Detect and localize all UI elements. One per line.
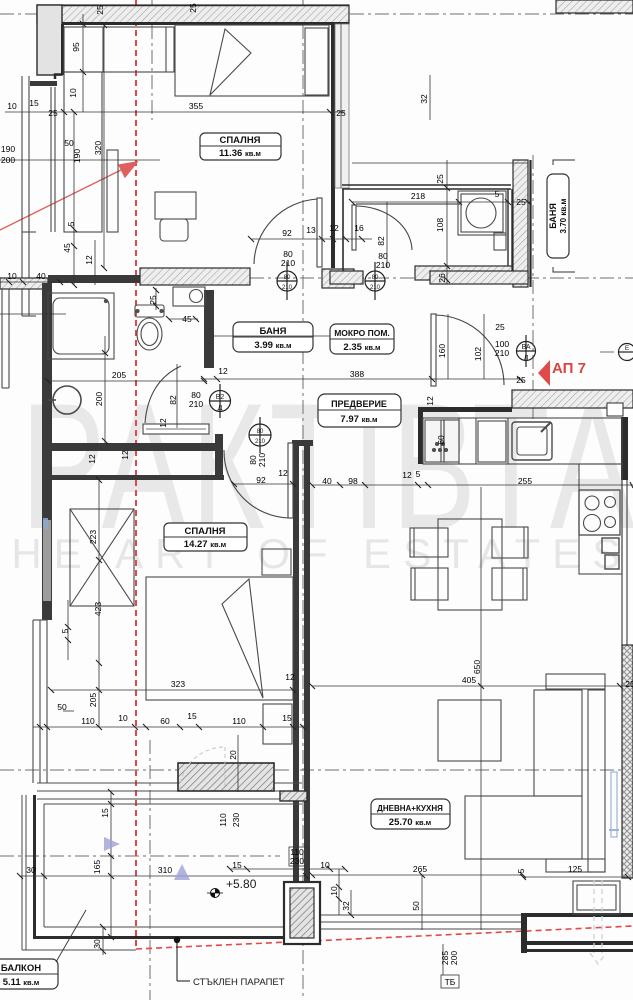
watermark xyxy=(0,365,633,577)
svg-text:32: 32 xyxy=(419,94,429,104)
svg-text:230: 230 xyxy=(231,813,241,827)
red reference dashed lines xyxy=(136,0,633,950)
svg-text:210: 210 xyxy=(257,453,267,467)
bedroom2 balcony window band xyxy=(37,783,302,799)
svg-text:12: 12 xyxy=(158,418,168,428)
svg-text:320: 320 xyxy=(93,141,103,155)
entry door symbol xyxy=(517,342,536,361)
kitchen right column counter xyxy=(579,464,622,574)
red arrow xyxy=(0,162,137,230)
svg-text:15: 15 xyxy=(100,808,110,818)
svg-text:30: 30 xyxy=(92,939,102,949)
coffee table xyxy=(438,700,501,761)
svg-text:650: 650 xyxy=(472,660,482,674)
shaft strip right of bedroom1 xyxy=(335,24,349,188)
svg-text:32: 32 xyxy=(341,901,351,911)
corner stub right of bath door xyxy=(204,443,216,451)
svg-text:218: 218 xyxy=(411,191,425,201)
right top bath wall (hatched vertical) xyxy=(513,160,528,287)
balcony outline xyxy=(33,795,36,938)
svg-text:10: 10 xyxy=(68,88,78,98)
svg-text:210: 210 xyxy=(255,439,266,445)
svg-text:5: 5 xyxy=(60,628,70,633)
svg-text:80: 80 xyxy=(284,275,291,281)
bedroom1 door xyxy=(317,198,322,267)
left edge wall below (off canvas stub) xyxy=(2,289,9,388)
entry door xyxy=(431,314,436,386)
svg-text:50: 50 xyxy=(64,138,74,148)
svg-text:50: 50 xyxy=(411,901,421,911)
predverie xyxy=(204,378,520,380)
svg-text:12: 12 xyxy=(425,396,435,406)
top bedroom1 xyxy=(64,111,345,113)
svg-text:5: 5 xyxy=(416,469,421,479)
bottom wall of top right bath xyxy=(430,271,528,284)
svg-text:15: 15 xyxy=(282,713,292,723)
svg-text:5.11 кв.м: 5.11 кв.м xyxy=(3,977,40,988)
svg-text:92: 92 xyxy=(256,475,266,485)
shower xyxy=(48,293,114,359)
svg-text:210: 210 xyxy=(189,399,203,409)
mokro door symbol xyxy=(365,271,385,291)
kitchen sink xyxy=(512,422,552,460)
svg-text:110: 110 xyxy=(81,716,95,726)
svg-text:30: 30 xyxy=(26,865,36,875)
svg-text:10: 10 xyxy=(7,271,17,281)
svg-text:40: 40 xyxy=(36,271,46,281)
svg-text:45: 45 xyxy=(62,243,72,253)
svg-text:СПАЛНЯ: СПАЛНЯ xyxy=(184,526,225,537)
svg-text:210: 210 xyxy=(282,285,293,291)
bedroom2 wardrobe X xyxy=(70,509,134,606)
svg-text:210: 210 xyxy=(495,348,509,358)
svg-text:102: 102 xyxy=(473,347,483,361)
bath door leaf + arc xyxy=(143,424,209,434)
svg-text:210: 210 xyxy=(370,285,381,291)
svg-text:200: 200 xyxy=(1,155,15,165)
washing machine xyxy=(458,191,506,235)
svg-text:12: 12 xyxy=(329,223,339,233)
svg-text:5: 5 xyxy=(495,189,500,199)
entry wall right of door xyxy=(512,390,633,408)
mokro bottom wall hatched xyxy=(415,266,512,280)
svg-text:50: 50 xyxy=(57,702,67,712)
bottom right terrace walls xyxy=(521,913,633,917)
svg-text:2.35 кв.м: 2.35 кв.м xyxy=(343,342,381,353)
svg-text:12: 12 xyxy=(278,468,288,478)
svg-text:11.36 кв.м: 11.36 кв.м xyxy=(219,148,261,159)
svg-text:5: 5 xyxy=(66,221,76,226)
bedroom1 bottom wall: left thin part xyxy=(48,275,140,283)
svg-text:423: 423 xyxy=(93,602,103,616)
svg-text:223: 223 xyxy=(88,530,98,544)
window column bottom xyxy=(284,882,320,944)
svg-text:В2: В2 xyxy=(216,394,225,401)
svg-text:25: 25 xyxy=(148,295,158,305)
svg-text:25: 25 xyxy=(516,375,526,385)
round sink xyxy=(53,386,81,414)
living balcony window band xyxy=(312,915,523,929)
svg-text:12: 12 xyxy=(120,450,130,460)
svg-text:12: 12 xyxy=(402,470,412,480)
bedroom2 top wall xyxy=(52,475,224,480)
nightstands xyxy=(262,549,291,575)
ghost dashed outline bottom right xyxy=(590,880,606,964)
svg-text:210: 210 xyxy=(281,258,295,268)
svg-text:205: 205 xyxy=(88,693,98,707)
svg-text:355: 355 xyxy=(189,101,203,111)
bath xyxy=(155,288,157,310)
svg-text:БАЛКОН: БАЛКОН xyxy=(1,963,41,974)
svg-text:25: 25 xyxy=(48,108,58,118)
faint balcony door swing xyxy=(180,747,225,790)
sofa xyxy=(546,674,605,689)
bath door symbol xyxy=(210,391,231,412)
svg-text:45: 45 xyxy=(182,314,192,324)
stove xyxy=(579,490,620,535)
mokro room top wall xyxy=(342,184,511,186)
svg-text:98: 98 xyxy=(348,476,358,486)
kitchen dim xyxy=(312,484,633,486)
svg-text:МОКРО ПОМ.: МОКРО ПОМ. xyxy=(334,328,390,338)
svg-text:ВА: ВА xyxy=(521,344,530,351)
svg-text:388: 388 xyxy=(350,369,364,379)
svg-text:230: 230 xyxy=(290,856,304,866)
svg-text:95: 95 xyxy=(71,42,81,52)
left wall column top xyxy=(37,5,62,75)
bedroom2 right wall xyxy=(292,440,313,446)
toilet xyxy=(135,305,164,317)
left window bedroom1 xyxy=(22,76,55,316)
svg-text:АП 7: АП 7 xyxy=(552,360,586,377)
top wall band xyxy=(37,5,349,24)
living xyxy=(480,487,482,930)
svg-text:82: 82 xyxy=(168,395,178,405)
bedroom1 bottom wall right piece xyxy=(322,269,354,288)
svg-text:165: 165 xyxy=(92,860,102,874)
svg-text:25: 25 xyxy=(188,3,198,13)
mokro right wall xyxy=(507,189,509,266)
svg-text:80: 80 xyxy=(257,429,264,435)
svg-text:200: 200 xyxy=(449,951,459,965)
БАЛКОН leader line xyxy=(56,910,86,962)
svg-text:3.70 кв.м: 3.70 кв.м xyxy=(559,198,568,233)
side table below sofa xyxy=(573,881,620,914)
bath left wall xyxy=(42,283,52,451)
right側 xyxy=(429,75,431,120)
svg-text:125: 125 xyxy=(568,864,582,874)
bedroom1 closet left xyxy=(64,72,102,232)
svg-text:+5.80: +5.80 xyxy=(226,877,257,891)
svg-text:15: 15 xyxy=(187,711,197,721)
glass door marker right wall xyxy=(611,772,617,837)
bedroom2 door dim xyxy=(234,483,296,485)
desk + chair bedroom1 xyxy=(155,192,196,219)
door code circle symbols xyxy=(210,262,633,453)
bedroom2 xyxy=(98,480,100,727)
svg-text:Л: Л xyxy=(524,355,529,362)
svg-text:310: 310 xyxy=(158,865,172,875)
svg-text:82: 82 xyxy=(376,236,386,246)
hatched pier on window xyxy=(178,763,274,791)
svg-text:60: 60 xyxy=(436,435,446,445)
svg-text:БАНЯ: БАНЯ xyxy=(548,203,558,229)
top left cluster xyxy=(5,111,64,113)
svg-text:92: 92 xyxy=(282,228,292,238)
svg-text:25: 25 xyxy=(435,174,445,184)
svg-text:110: 110 xyxy=(232,716,246,726)
svg-text:190: 190 xyxy=(1,144,15,154)
bedroom2 left wall xyxy=(42,451,52,620)
bedroom1 door symbol xyxy=(277,271,297,291)
bedroom1 closet top xyxy=(64,27,174,72)
svg-text:Е: Е xyxy=(625,345,630,352)
svg-text:3.99 кв.м: 3.99 кв.м xyxy=(254,340,292,351)
svg-text:25.70 кв.м: 25.70 кв.м xyxy=(389,817,432,828)
small blue window marker bedroom2 xyxy=(43,518,48,529)
bedroom1 right wall xyxy=(331,24,335,268)
bed1 xyxy=(175,25,329,96)
svg-text:26: 26 xyxy=(437,273,447,283)
bath bottom wall xyxy=(42,443,216,451)
svg-text:12: 12 xyxy=(87,454,97,464)
svg-text:25: 25 xyxy=(336,108,346,118)
balcony xyxy=(110,792,112,937)
bedroom2 door symbol xyxy=(249,424,271,446)
left wall piece at left edge y278 xyxy=(0,278,48,289)
svg-text:16: 16 xyxy=(354,223,364,233)
svg-text:190: 190 xyxy=(72,149,82,163)
svg-text:80: 80 xyxy=(372,275,379,281)
bedroom1 door dims xyxy=(251,238,372,240)
svg-text:25: 25 xyxy=(95,5,105,15)
svg-text:108: 108 xyxy=(435,218,445,232)
svg-text:СТЪКЛЕН ПАРАПЕТ: СТЪКЛЕН ПАРАПЕТ xyxy=(193,977,285,988)
svg-text:ПРЕДВЕРИЕ: ПРЕДВЕРИЕ xyxy=(331,399,387,409)
svg-text:15: 15 xyxy=(29,98,39,108)
svg-text:10: 10 xyxy=(320,860,330,870)
svg-text:210: 210 xyxy=(376,260,390,270)
svg-text:10: 10 xyxy=(329,886,339,896)
kitchen top wall line xyxy=(418,407,512,412)
svg-text:7.97 кв.м: 7.97 кв.м xyxy=(340,414,378,425)
top right corner band xyxy=(556,0,633,13)
svg-text:25: 25 xyxy=(625,679,633,689)
kitchen counter row xyxy=(423,418,622,464)
bedroom2 left window xyxy=(43,520,51,601)
svg-text:323: 323 xyxy=(171,679,185,689)
dining table xyxy=(438,519,502,610)
svg-text:12: 12 xyxy=(285,672,295,682)
svg-text:10: 10 xyxy=(118,713,128,723)
svg-text:255: 255 xyxy=(518,476,532,486)
right edge symbol xyxy=(619,344,633,361)
svg-text:Д: Д xyxy=(218,405,223,412)
svg-text:ТБ: ТБ xyxy=(445,977,456,987)
svg-text:25: 25 xyxy=(495,322,505,332)
burner dots xyxy=(433,443,448,452)
svg-text:ДНЕВНА+КУХНЯ: ДНЕВНА+КУХНЯ xyxy=(377,804,443,813)
svg-text:5: 5 xyxy=(516,868,526,873)
svg-text:160: 160 xyxy=(437,344,447,358)
svg-text:14.27 кв.м: 14.27 кв.м xyxy=(184,539,227,550)
right wall of living xyxy=(621,417,628,480)
svg-text:12: 12 xyxy=(218,366,228,376)
oven boxes xyxy=(602,538,619,553)
bed2 xyxy=(146,577,293,700)
svg-text:110: 110 xyxy=(218,813,228,827)
bath right wall (inner) xyxy=(204,290,214,368)
svg-text:20: 20 xyxy=(228,750,238,760)
svg-text:10: 10 xyxy=(7,101,17,111)
washbasin counter xyxy=(173,287,205,306)
СТЪКЛЕН ПАРАПЕТ xyxy=(174,937,285,988)
svg-text:13: 13 xyxy=(306,225,316,235)
bedroom2 door xyxy=(288,443,293,518)
mokro left wall xyxy=(342,189,344,280)
+5.80 level mark xyxy=(207,877,257,898)
svg-text:60: 60 xyxy=(160,716,170,726)
svg-text:200: 200 xyxy=(94,392,104,406)
mokro door xyxy=(352,205,356,250)
svg-text:405: 405 xyxy=(462,675,476,685)
svg-text:40: 40 xyxy=(322,476,332,486)
svg-text:205: 205 xyxy=(112,370,126,380)
svg-text:12: 12 xyxy=(84,255,94,265)
svg-text:15: 15 xyxy=(232,860,242,870)
svg-text:БАНЯ: БАНЯ xyxy=(259,326,286,337)
АП 7 red xyxy=(538,360,586,386)
blue triangles xyxy=(104,837,120,851)
bedroom1 bottom wall hatched xyxy=(140,268,250,285)
svg-text:СПАЛНЯ: СПАЛНЯ xyxy=(219,135,260,146)
svg-text:265: 265 xyxy=(413,864,427,874)
svg-text:25: 25 xyxy=(516,197,526,207)
